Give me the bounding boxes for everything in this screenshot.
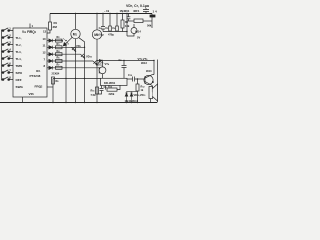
IC U1 PT2248 box: [13, 28, 47, 97]
diode VD1 row40.6: [49, 39, 53, 42]
svg-text:VD10,VD11: VD10,VD11: [134, 94, 147, 97]
diode VD13: [99, 59, 102, 61]
switch S6: [2, 63, 14, 67]
capacitor C7: [143, 8, 149, 14]
diode VD2 row47.3: [49, 46, 53, 49]
svg-text:TMS: TMS: [16, 64, 23, 68]
junction node ground colD: [96, 102, 97, 103]
transistor VT5: [144, 75, 153, 84]
wire M1 lower lead: [71, 37, 73, 38]
wire row pin5 y40.6: [47, 40, 63, 42]
wire right edge: [157, 60, 159, 85]
svg-text:11: 11: [43, 44, 46, 48]
speaker B: [149, 87, 153, 99]
resistor R6 on FRQ column: [52, 77, 55, 84]
matrix diode VD10: [81, 54, 85, 58]
motor M2 circle: [92, 30, 101, 39]
svg-text:B: B: [152, 80, 154, 84]
switch S2: [2, 35, 14, 38]
junction node col D y62: [96, 60, 97, 61]
junction node x137.5 y79: [137, 78, 138, 79]
switch bus wire: [1, 30, 3, 81]
resistor R9: [122, 14, 124, 21]
junction node x127 y31.5: [126, 31, 127, 32]
junction node col B row78.5: [75, 78, 76, 79]
wire FRQ pin to node: [47, 86, 53, 88]
matrix diode VD9: [72, 47, 76, 51]
wire right drop: [151, 14, 153, 29]
svg-text:10: 10: [43, 37, 47, 41]
svg-text:1 4: 1 4: [153, 10, 158, 14]
svg-text:2CK84: 2CK84: [52, 73, 60, 76]
junction node col D row63: [96, 64, 97, 65]
wire long vertical right: [126, 14, 128, 37]
svg-text:SPO: SPO: [16, 71, 23, 75]
capacitor C10: [127, 77, 145, 82]
junction node ground colC: [84, 102, 85, 103]
junction node rail x127: [126, 13, 127, 14]
wire row y78.5: [53, 78, 101, 80]
pin1 top tick: [29, 24, 31, 29]
svg-text:10k: 10k: [125, 24, 130, 28]
wire bottom-right row y60.5: [97, 61, 154, 75]
junction node ground VD10: [126, 102, 127, 103]
svg-text:TL1,: TL1,: [16, 36, 22, 40]
junction node col C row78.5: [84, 78, 85, 79]
diode VD3 row54.2: [49, 53, 53, 56]
diode VD10 vertical glyph: [125, 92, 128, 103]
diode VD11 vertical glyph: [130, 92, 133, 103]
wire column D: [96, 39, 98, 102]
resistor R1: [49, 22, 52, 30]
junction node ground x53: [52, 102, 53, 103]
junction node rail M2: [96, 13, 97, 14]
svg-text:– 19: – 19: [104, 9, 110, 13]
transistor VT3: [131, 28, 137, 34]
junction node col C row56: [84, 57, 85, 58]
resistor R11 on column D: [96, 87, 99, 94]
svg-text:46F1: 46F1: [133, 9, 140, 13]
capacitor C9: [97, 86, 104, 95]
wire row pin8 y67.8: [47, 67, 99, 69]
svg-text:5V: 5V: [137, 36, 140, 40]
keypad switches: [2, 28, 14, 81]
svg-text:OFF: OFF: [16, 78, 22, 82]
svg-text:VD7, C7, 0.1μa: VD7, C7, 0.1μa: [126, 4, 149, 8]
switch S7: [2, 70, 14, 74]
switch S8: [2, 77, 14, 81]
junction node rail R9: [122, 13, 123, 14]
diode VD5 row67.8: [49, 66, 53, 69]
resistor R2: [56, 39, 63, 42]
svg-text:VD12,: VD12,: [96, 63, 103, 67]
diode VD7 block: [127, 20, 134, 22]
svg-text:470μ: 470μ: [108, 33, 114, 37]
junction node ground colB: [75, 102, 76, 103]
junction node rail M1: [75, 13, 76, 14]
svg-text:SWG: SWG: [16, 85, 24, 89]
junction node ground VD11: [131, 102, 132, 103]
IC U2 KD-9561 box: [101, 78, 128, 85]
switch S4: [2, 49, 14, 52]
wire column C from M1: [79, 38, 85, 103]
resistor R7 row67.8: [56, 66, 63, 69]
svg-text:12: 12: [43, 51, 47, 55]
matrix diode VD11: [93, 61, 97, 65]
resistor R3: [56, 46, 63, 49]
svg-text:TL4,: TL4,: [16, 57, 22, 61]
wire Vss pin stub: [22, 97, 24, 103]
junction node rail C6: [116, 13, 117, 14]
wire cap cluster bottom: [103, 31, 127, 33]
junction node ground R12: [137, 102, 138, 103]
wire R1 to rail: [49, 14, 51, 23]
capacitor C4: [101, 14, 105, 32]
wire row pin11 y54.2: [47, 53, 81, 55]
wire M1 to rail: [75, 14, 77, 30]
junction node rail C4: [102, 13, 103, 14]
junction node ground colA: [65, 102, 66, 103]
junction node x124 y62: [123, 60, 124, 61]
wire pin13 to R1: [47, 30, 50, 33]
wire diode tops: [127, 91, 138, 93]
wire right edge lower: [157, 84, 159, 103]
transistor VT1 emitter diagonal: [63, 39, 71, 46]
capacitor C8: [122, 61, 127, 79]
wire bottom ground rail: [0, 102, 157, 104]
wire M2 to rail: [96, 14, 98, 30]
wire row pin12 y61: [47, 60, 93, 62]
motor M1 circle: [71, 29, 80, 38]
svg-text:1N4148×2: 1N4148×2: [125, 99, 139, 103]
svg-text:7.5k: 7.5k: [91, 93, 97, 97]
svg-text:9013: 9013: [146, 70, 152, 73]
wire column FRQ: [52, 79, 54, 103]
switch S3: [2, 42, 14, 45]
junction node col A row78.5: [65, 78, 66, 79]
resistor R10: [105, 86, 107, 90]
svg-text:9014: 9014: [135, 30, 141, 34]
resistor R4: [56, 53, 63, 56]
junction node col B row49.5: [75, 51, 76, 52]
svg-text:1N4001: 1N4001: [120, 9, 130, 13]
switch S1: [2, 28, 14, 32]
svg-text:9013: 9013: [141, 61, 147, 65]
transistor VT4: [99, 67, 106, 74]
wire column A: [65, 44, 67, 103]
svg-text:PT2248: PT2248: [30, 74, 41, 78]
svg-text:56k: 56k: [147, 24, 152, 28]
svg-text:2M: 2M: [53, 25, 58, 29]
svg-text:13: 13: [43, 30, 47, 34]
resistor R5 row61: [56, 60, 63, 63]
svg-text:TL3,: TL3,: [16, 50, 22, 54]
capacitor C11 small: [127, 14, 131, 22]
wire row pin10 y47.3: [47, 46, 85, 48]
capacitor C5 electrolytic: [109, 14, 111, 32]
svg-text:220k: 220k: [109, 92, 115, 96]
junction node x150.5 y62: [153, 60, 154, 61]
connector blob: [150, 15, 156, 18]
junction node rail C5: [109, 13, 110, 14]
svg-text:TL2,: TL2,: [16, 43, 22, 47]
wire top supply rail: [50, 13, 152, 15]
svg-text:0.01μ: 0.01μ: [97, 33, 104, 37]
switch S5: [2, 56, 14, 59]
wire column B: [75, 39, 77, 103]
capacitor C6 electrolytic: [116, 14, 118, 32]
svg-text:M1: M1: [73, 33, 78, 37]
resistor R12: [136, 84, 139, 91]
junction node col A row43: [65, 40, 66, 41]
diode VD4 row61: [49, 59, 53, 62]
